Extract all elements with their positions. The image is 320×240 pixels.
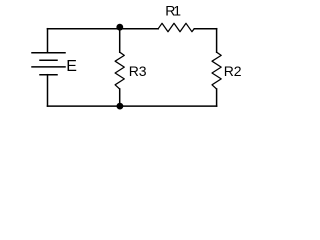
svg-text:R1: R1 [165, 3, 181, 19]
svg-text:R3: R3 [129, 63, 147, 79]
svg-text:R2: R2 [224, 63, 242, 79]
svg-text:E: E [66, 58, 77, 75]
